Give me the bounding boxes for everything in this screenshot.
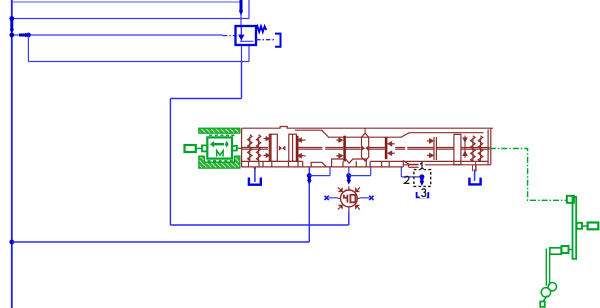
motor shaft line right <box>237 147 242 149</box>
wire: port B link to stub <box>349 175 371 177</box>
motor arrow left <box>214 143 224 145</box>
linkage right square <box>588 223 599 230</box>
motor letter M <box>217 151 223 157</box>
motor bottom hatched cradle <box>199 156 240 168</box>
linkage horizontal rect <box>550 248 561 254</box>
motor shaft line left <box>196 147 202 149</box>
blocked port x left <box>325 196 329 200</box>
flow arrows left chamber <box>264 137 343 158</box>
spool separator pair <box>433 137 435 160</box>
linkage top square <box>567 196 574 203</box>
bottom boxes right of notch <box>369 161 371 167</box>
valve right wall <box>490 128 492 165</box>
wire: port A link to second valve stub <box>309 175 330 177</box>
valve land B double <box>289 134 297 161</box>
flow arrow on main vertical <box>10 19 13 30</box>
motor bottom dashes <box>208 160 233 162</box>
linkage right small square <box>577 223 582 229</box>
flow arrow on pilot horizontal <box>19 34 26 37</box>
lever pivot circle 1 <box>548 283 556 291</box>
compensator capsule <box>362 133 369 161</box>
valve thick bar 2 <box>343 136 346 162</box>
small right arrows near x=265 <box>264 138 267 140</box>
wire: vertical x=28.4 down <box>27 35 29 62</box>
flow arrow below port A dot <box>308 176 311 181</box>
wire: pilot horizontal y=35 <box>12 34 223 36</box>
lever bottom square <box>540 302 545 307</box>
circle stubs <box>348 186 350 190</box>
tank stub right <box>472 165 474 172</box>
bottom raised box with diagonal end <box>311 162 326 167</box>
wire: port B stub from valve <box>348 168 350 176</box>
flow arrow below probe dot <box>420 177 423 182</box>
motor right coupling square <box>232 146 237 151</box>
lever lower diagonal <box>543 296 547 302</box>
valve spring left pair <box>248 135 261 162</box>
relief valve V1 body <box>236 26 257 45</box>
relief valve spring <box>256 26 266 32</box>
probe port label 3 <box>421 189 425 197</box>
node: junction dot probe <box>419 174 424 179</box>
bottom wedge at probe port <box>403 161 408 167</box>
motor body M <box>207 137 232 158</box>
wire: main tank vertical left <box>11 0 13 308</box>
probe port label 1 <box>420 163 424 169</box>
arrows pointing left at bar 3 <box>388 139 433 157</box>
pilot dash-dot green line <box>490 149 567 201</box>
wire: vertical x=241.5 y=61.5 to 98.5 <box>241 62 243 99</box>
wire: horizontal y=225 <box>170 224 348 226</box>
spool centerline segments <box>242 148 268 150</box>
small vertical arrows right of land <box>463 136 467 158</box>
valve outer bottom right <box>403 164 491 166</box>
wire: top horizontal to relief valve top <box>12 1 241 3</box>
valve inner bottom line <box>242 160 303 162</box>
arrows pointing right x=427 <box>427 140 430 142</box>
blocked port x right <box>369 196 373 200</box>
motor left coupling square <box>202 145 207 151</box>
drain pin down <box>475 161 477 171</box>
motor top dashes <box>209 134 234 136</box>
glyph 4 inside circle <box>344 195 348 203</box>
wire: horizontal y=242 <box>12 241 310 243</box>
node: junction dot 1 <box>9 16 14 21</box>
wire: probe stub from valve <box>400 168 402 177</box>
valve land A <box>269 134 277 161</box>
node: junction dot port B <box>346 173 351 178</box>
valve inner top contour <box>295 130 484 137</box>
spring centre pins <box>249 137 251 147</box>
wire: second horizontal y=18.5 <box>12 18 249 20</box>
motor mount block left <box>185 145 196 152</box>
bottom band separators <box>248 161 250 167</box>
node: junction dot bottom left <box>9 240 14 245</box>
probe tank symbol <box>417 192 429 197</box>
wire: vertical x=249 top <box>248 0 250 19</box>
linkage bottom-left square <box>562 246 569 253</box>
valve outer top line <box>242 127 493 129</box>
tank T1 below valve left <box>254 168 256 182</box>
valve outer bottom left <box>242 166 403 168</box>
bowtie orifice <box>279 146 282 151</box>
flow arrow on relief top wire <box>240 0 243 12</box>
wire: relief valve top port vertical <box>240 2 242 27</box>
bottom channel to probe <box>409 163 425 165</box>
mid arrows pointing right <box>336 139 339 141</box>
node: junction dot 2 <box>9 33 14 38</box>
right land box <box>454 134 461 164</box>
linkage vertical bar <box>573 197 577 259</box>
relief valve pilot dash-dot to plug <box>256 39 275 41</box>
lever arm double line <box>545 249 547 286</box>
node: junction dot 3 <box>26 33 31 38</box>
wire: horizontal y=98.5 <box>170 98 241 100</box>
wire: horizontal y=61.5 to relief valve bottom <box>28 61 249 63</box>
spring pins <box>472 138 474 148</box>
right spring pair <box>471 136 483 172</box>
valve thick bar 1 <box>296 136 299 162</box>
lever pivot circle 2 <box>541 288 550 297</box>
probe port label 2 <box>405 176 410 183</box>
glyph D inside circle <box>350 195 355 203</box>
valve left wall <box>241 128 243 167</box>
flow arrow below port B dot <box>347 176 350 181</box>
plugged port bracket <box>275 34 281 47</box>
measuring probe dashed selection box <box>414 170 431 187</box>
tank T2 below valve right <box>474 169 476 181</box>
pilot dash-dot into relief valve <box>222 35 235 37</box>
bottom tall box with V notch <box>332 159 367 167</box>
metering device circle <box>341 190 358 207</box>
wire: vertical x=348.8 up to metering circle <box>348 212 350 226</box>
wire: relief valve bottom stubs <box>241 45 243 62</box>
relief valve seat line <box>240 40 253 42</box>
electric motor M1 assembly: top hatched bar <box>199 128 240 133</box>
tank stub left <box>253 167 255 169</box>
valve thick bar 3 <box>385 137 388 159</box>
wire: vertical x=170.4 <box>169 99 171 226</box>
node: junction dot port A <box>307 173 312 178</box>
proportional valve body group <box>242 127 493 172</box>
linkage link line <box>582 225 588 227</box>
relief valve poppet arrow <box>240 27 242 36</box>
wire: vertical x=309.3 valve port A to y=242 <box>308 168 310 243</box>
motor small diamond mark <box>225 141 229 148</box>
circle diagonal arrows <box>338 187 360 209</box>
